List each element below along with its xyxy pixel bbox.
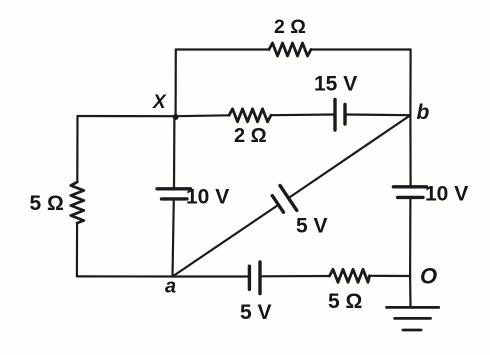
svg-text:5 V: 5 V: [240, 301, 272, 324]
wire left side down to resistor 5ohm: [76, 116, 78, 182]
battery 5V diagonal plates: [272, 186, 297, 213]
label 15 V: [314, 73, 357, 96]
label 5 V diagonal: [296, 214, 328, 237]
wire X up to top-left corner: [175, 50, 177, 117]
wire resistor to left-bottom corner: [76, 223, 78, 276]
wire X to resistor 2ohm middle: [176, 114, 229, 117]
node label a: [165, 276, 176, 298]
wire resistor to top-right corner: [311, 48, 411, 50]
svg-text:O: O: [420, 264, 437, 289]
wire X down to battery 10V: [173, 116, 176, 189]
label 2 ohm top: [274, 16, 306, 38]
battery 10V left plates: [157, 189, 191, 199]
wire X to left-top corner: [78, 115, 176, 117]
resistor 5ohm bottom: [330, 269, 370, 282]
node X junction dot: [173, 114, 179, 120]
label 5 ohm left: [30, 192, 64, 215]
wire top-right corner down to node b: [409, 50, 411, 116]
label 5 V bottom: [240, 301, 272, 324]
svg-text:5 Ω: 5 Ω: [30, 192, 64, 215]
wire battery 10V down to node a: [173, 199, 174, 277]
svg-text:10 V: 10 V: [425, 183, 468, 206]
wire battery 5V diagonal to node b: [288, 115, 410, 198]
ground stub wire at O: [409, 276, 412, 307]
wire resistor 5ohm bottom to node O: [370, 275, 411, 277]
svg-text:2 Ω: 2 Ω: [234, 125, 267, 147]
battery 15V plates: [335, 100, 345, 131]
svg-text:15 V: 15 V: [314, 73, 357, 96]
resistor 2ohm top: [269, 43, 311, 56]
node label O: [420, 264, 437, 289]
battery 5V bottom plates: [249, 262, 260, 294]
wire node b down to battery 10V right: [409, 115, 411, 187]
svg-text:10 V: 10 V: [186, 185, 229, 208]
node label b: [417, 101, 430, 124]
label 10 V left: [186, 185, 229, 208]
svg-text:2 Ω: 2 Ω: [274, 16, 306, 38]
resistor 5ohm left: [71, 182, 84, 223]
svg-text:5 V: 5 V: [296, 214, 328, 237]
label 2 ohm middle: [234, 125, 267, 147]
wire node a to battery 5V bottom: [173, 275, 250, 277]
svg-text:5 Ω: 5 Ω: [328, 290, 362, 313]
label 10 V right: [425, 183, 468, 206]
wire battery 15V to node b: [345, 113, 410, 116]
wire top-left corner to resistor 2ohm: [176, 48, 269, 50]
wire battery 10V right down to node O: [409, 197, 411, 276]
svg-text:b: b: [417, 101, 430, 124]
wire resistor to battery 15V: [271, 113, 335, 116]
resistor 2ohm middle: [229, 109, 271, 122]
battery 10V right plates: [393, 187, 426, 198]
wire left-bottom corner to node a: [77, 275, 173, 277]
wire battery 5V bottom to resistor 5ohm bottom: [260, 275, 330, 277]
wire node a up diagonal to battery 5V: [173, 206, 277, 276]
svg-text:a: a: [165, 276, 176, 298]
node label X: [152, 92, 167, 113]
label 5 ohm bottom: [328, 290, 362, 313]
svg-text:X: X: [152, 92, 167, 113]
ground symbol: [387, 307, 439, 330]
